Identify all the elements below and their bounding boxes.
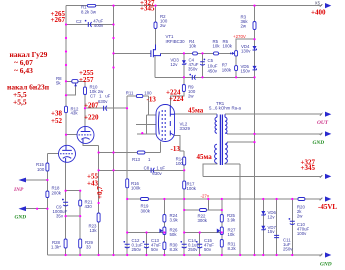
resistor R18 (46, 191, 49, 198)
resistor R24 (163, 215, 166, 223)
arrow GND right (325, 131, 331, 136)
resistor R2 (154, 22, 157, 29)
wire VL2 cathode (160, 142, 162, 153)
resistor R7 (235, 66, 238, 71)
capacitor C11 (274, 235, 279, 237)
capacitor C10 (290, 221, 295, 224)
wire g2 feed (146, 96, 156, 134)
svg-text:~ 6,43: ~ 6,43 (14, 66, 33, 75)
capacitor C14 (182, 244, 187, 248)
wire negative rail (127, 198, 321, 200)
wire R11 row (127, 95, 149, 97)
trimmer R26 (159, 227, 166, 235)
svg-text:8.2k: 8.2k (170, 247, 179, 252)
svg-text:8.2k 3w: 8.2k 3w (81, 9, 97, 14)
svg-text:130v: 130v (241, 48, 251, 53)
svg-text:200k: 200k (52, 191, 62, 196)
svg-text:+400: +400 (311, 9, 326, 17)
svg-text:630v: 630v (152, 171, 162, 176)
wire left supply column (65, 6, 67, 146)
wire 127 long column (126, 96, 128, 255)
svg-text:+0,7: +0,7 (96, 186, 104, 199)
transistor VT1 (151, 45, 161, 58)
wire TR1 primary bottom left (203, 163, 217, 176)
wire C11 column (276, 199, 278, 255)
wire C9 R21 tie (66, 215, 81, 217)
svg-text:C7 1 uF: C7 1 uF (90, 94, 111, 99)
resistor R23 (97, 213, 100, 222)
svg-text:IRFIBC30: IRFIBC30 (166, 39, 186, 44)
svg-text:-27v: -27v (201, 194, 210, 199)
svg-text:2w: 2w (160, 23, 166, 28)
svg-text:45ма: 45ма (188, 106, 204, 114)
svg-text:12v: 12v (268, 214, 276, 219)
wire TR1 primary bottom right (225, 162, 240, 165)
svg-text:GND: GND (313, 140, 325, 146)
resistor R3 (253, 22, 256, 30)
resistor R14 (183, 157, 186, 165)
resistor R11 (136, 94, 142, 97)
svg-text:430: 430 (85, 204, 93, 209)
resistor R30 (163, 242, 166, 250)
wire 239 column (239, 164, 241, 255)
wire VT1 source row (161, 52, 233, 54)
wire R2 column (155, 6, 157, 45)
svg-text:43k: 43k (71, 111, 79, 116)
arrow GND left (19, 206, 27, 211)
wire GND link (25, 208, 47, 210)
tube V1a (59, 145, 76, 162)
zener VD4 (253, 46, 257, 50)
wire R9 column (170, 77, 184, 106)
trimmer R27 (217, 227, 224, 235)
svg-text:GND: GND (15, 214, 27, 220)
svg-text:33: 33 (86, 245, 91, 250)
wire R8 wiper (66, 83, 76, 95)
svg-text:R11: R11 (126, 91, 134, 96)
resistor R15 (46, 163, 49, 171)
transformer TR1 (215, 114, 228, 165)
svg-text:45ма: 45ма (197, 153, 213, 161)
wire V1b cathode jog (83, 143, 99, 145)
svg-text:350v: 350v (188, 67, 198, 72)
junction dots (65, 23, 67, 25)
arrow OUT (325, 112, 331, 117)
capacitor C2 (88, 22, 91, 27)
svg-text:400v: 400v (94, 23, 104, 28)
wire ground drop (46, 209, 48, 255)
wire C15 column (199, 233, 201, 256)
svg-text:10k: 10k (189, 44, 197, 49)
svg-text:180k: 180k (222, 67, 232, 72)
capacitor C8 (151, 168, 154, 173)
wire R6 link to 270V node (236, 39, 254, 50)
capacitor C12 (125, 244, 130, 248)
wire VD3 column (183, 53, 185, 77)
svg-text:50v: 50v (204, 247, 212, 252)
resistor R4 (193, 52, 198, 55)
svg-text:2w: 2w (188, 93, 194, 98)
wire right box top (184, 209, 222, 211)
svg-text:R13: R13 (132, 157, 141, 162)
svg-text:10k: 10k (228, 232, 236, 237)
resistor R12 (65, 106, 68, 113)
resistor R1 (87, 4, 95, 7)
arrow B plus (325, 174, 331, 179)
svg-text:1.3k*: 1.3k* (51, 245, 61, 250)
svg-text:300k: 300k (141, 208, 151, 213)
resistor R28 (64, 239, 67, 248)
wire zener tie row (155, 76, 255, 78)
capacitor C15 (197, 244, 202, 248)
svg-text:+207: +207 (84, 102, 99, 110)
wire VD6 VD7 column (262, 199, 264, 255)
svg-text:250v: 250v (188, 247, 198, 252)
wire VT1 gate (114, 52, 151, 54)
wire right box mid (184, 232, 222, 234)
svg-text:5...6 kOhm Ra-a: 5...6 kOhm Ra-a (209, 106, 241, 111)
capacitor C5 (200, 62, 205, 65)
wire C5 column (202, 53, 204, 77)
wire C13 column (146, 233, 148, 256)
wire VL2 g2 stub (136, 123, 157, 125)
svg-text:150v: 150v (241, 69, 251, 74)
svg-text:+270V: +270V (233, 34, 246, 39)
resistor R21 (79, 200, 82, 206)
wire R21 column (79, 191, 81, 255)
wire top rail (66, 5, 322, 7)
wire R6 R7 column (235, 56, 237, 77)
svg-text:100k: 100k (187, 186, 197, 191)
wire R10 column (84, 81, 86, 126)
wire cathode R21 link (66, 190, 81, 192)
svg-text:12v: 12v (170, 62, 178, 67)
wire R18 column (46, 153, 48, 208)
resistor R16 (126, 179, 129, 188)
svg-text:100k: 100k (131, 186, 141, 191)
wire C2 branch (66, 24, 114, 26)
svg-text:INP: INP (13, 187, 24, 193)
svg-text:X5: X5 (315, 1, 321, 6)
wire C7 row (85, 107, 127, 109)
svg-text:50v: 50v (151, 247, 159, 252)
resistor R17 (183, 181, 186, 189)
svg-text:-45VL: -45VL (318, 203, 337, 211)
svg-text:OUT: OUT (317, 120, 329, 126)
wire INP link (25, 179, 47, 181)
svg-text:C5: C5 (208, 58, 214, 63)
resistor R9 (182, 85, 185, 92)
svg-text:15v: 15v (268, 229, 276, 234)
wire right box col 221 (221, 199, 223, 255)
arrow X5 (325, 3, 331, 8)
potentiometer R8 (72, 80, 78, 87)
wire R14 R17 column (183, 151, 185, 255)
resistor R5 (214, 52, 219, 55)
tube V1b (77, 126, 94, 143)
wire V1a grid (47, 153, 58, 155)
zener VD5 (253, 66, 257, 70)
svg-text:3.9k: 3.9k (170, 217, 179, 222)
resistor R31 (220, 240, 223, 248)
svg-text:3Э29: 3Э29 (180, 126, 191, 131)
resistor R13 (137, 151, 145, 154)
svg-text:100v: 100v (297, 231, 307, 236)
svg-text:100: 100 (37, 167, 45, 172)
svg-text:100k: 100k (223, 44, 233, 49)
svg-text:250v: 250v (283, 247, 293, 252)
svg-text:-13: -13 (171, 145, 181, 153)
resistor R19 (141, 198, 149, 201)
wire R3 zener column (254, 6, 256, 255)
resistor R22 (200, 209, 207, 212)
svg-text:GND: GND (320, 262, 332, 268)
resistor R10 (84, 87, 87, 95)
wire V1b grid (66, 134, 77, 136)
wire box column 164 (163, 199, 165, 255)
wire VL2 lower plate lead (175, 136, 185, 152)
svg-text:+257: +257 (79, 76, 94, 84)
svg-text:+224: +224 (169, 95, 184, 103)
svg-text:10k: 10k (213, 44, 221, 49)
wire TR1 secondary to OUT (225, 113, 322, 115)
wire C10 column (291, 199, 293, 255)
zener VD3 (182, 60, 186, 64)
wire B plus row (203, 175, 321, 177)
wire box mid left (127, 232, 164, 234)
wire 208 stub (207, 199, 209, 210)
svg-text:50k: 50k (170, 232, 178, 237)
svg-text:450v: 450v (208, 68, 218, 73)
svg-text:+345: +345 (140, 5, 155, 13)
wire source dropdown (154, 55, 156, 77)
svg-text:3.9k: 3.9k (227, 217, 236, 222)
svg-text:C2: C2 (76, 19, 82, 24)
svg-text:250v: 250v (132, 247, 142, 252)
wire VL2 g1 stub (137, 133, 157, 135)
tube VL2 (156, 105, 175, 142)
svg-text:+52: +52 (51, 117, 62, 125)
svg-text:2w: 2w (241, 24, 247, 29)
zener VD7 (261, 226, 265, 230)
zener VD6 (261, 211, 265, 215)
capacitor C7 (104, 106, 107, 111)
svg-text:C8: C8 (144, 165, 150, 170)
wire R23 column (98, 146, 100, 256)
svg-text:+220: +220 (84, 114, 99, 122)
svg-text:100: 100 (176, 161, 184, 166)
trimmer R6 (231, 51, 238, 57)
capacitor C4 (192, 75, 195, 80)
arrow GND bottom (325, 252, 331, 257)
wire R8 pot row (66, 80, 85, 82)
arrow INP (19, 178, 27, 183)
svg-text:35v: 35v (56, 214, 64, 219)
wire TR1 secondary mid to GND (227, 133, 322, 135)
svg-text:+267: +267 (51, 16, 66, 24)
svg-text:8.2k: 8.2k (228, 246, 237, 251)
svg-text:-13: -13 (147, 95, 157, 103)
wire bottom ground rail (47, 254, 322, 256)
wire R13 row (99, 152, 161, 154)
resistor R29 (79, 239, 82, 248)
svg-text:+345: +345 (301, 164, 316, 172)
svg-text:2w: 2w (297, 214, 303, 219)
svg-text:1 uF: 1 uF (156, 165, 165, 170)
capacitor C9 (63, 202, 68, 206)
resistor R20 (298, 198, 305, 201)
wire cathode C9 column (65, 162, 67, 255)
arrow -45VL (325, 196, 331, 201)
wire C8 row (99, 169, 185, 171)
resistor R25 (220, 215, 223, 223)
svg-text:+5,5: +5,5 (13, 98, 27, 107)
svg-text:630v: 630v (98, 99, 108, 104)
svg-text:300k: 300k (198, 218, 208, 223)
capacitor C13 (144, 244, 149, 248)
svg-text:13k: 13k (90, 228, 98, 233)
wire second column (113, 6, 115, 255)
wire plate to TR1 (175, 113, 218, 115)
wire TR1 secondary low (227, 141, 255, 143)
